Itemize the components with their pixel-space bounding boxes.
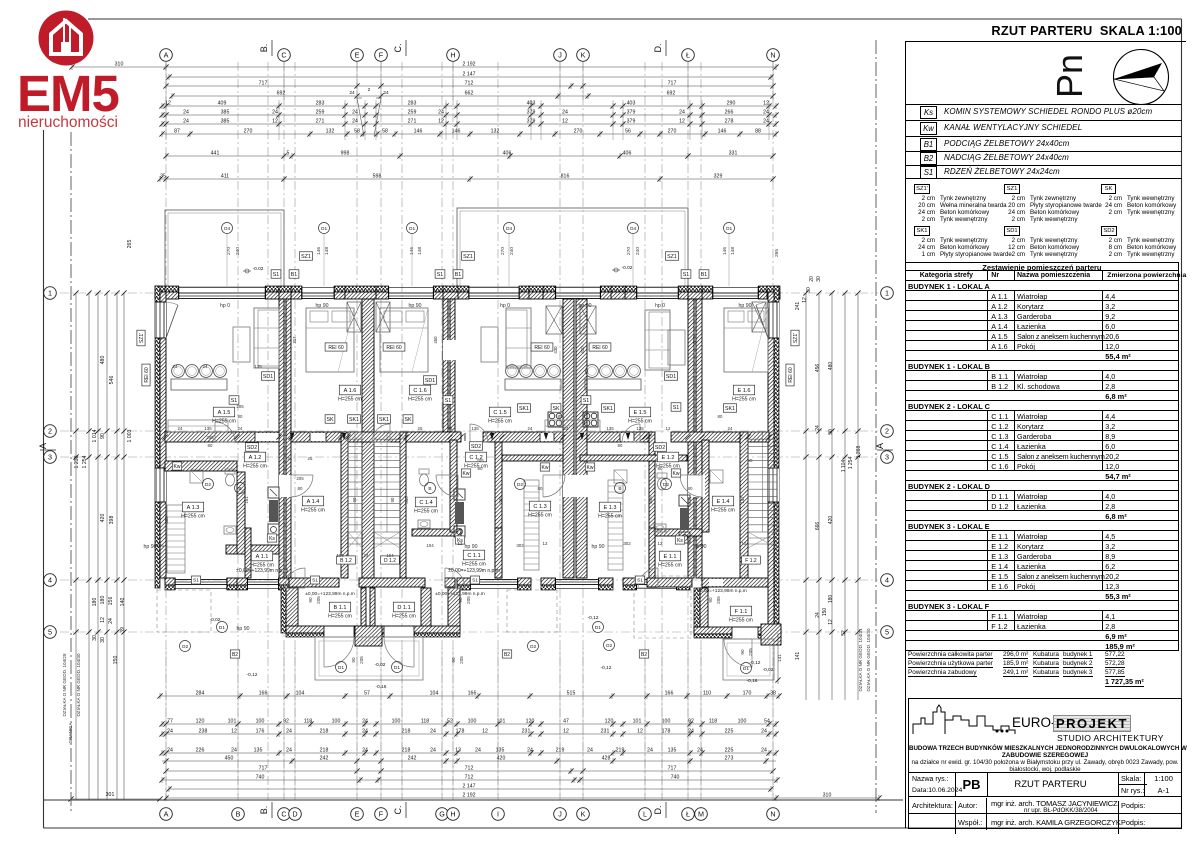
svg-text:77: 77: [167, 718, 173, 724]
svg-text:1: 1: [885, 289, 889, 298]
svg-text:hp 0: hp 0: [220, 303, 230, 309]
svg-text:E 1.2: E 1.2: [661, 455, 674, 461]
svg-text:SK: SK: [326, 417, 334, 423]
svg-text:hp 0: hp 0: [655, 303, 665, 309]
svg-text:L: L: [643, 810, 647, 819]
svg-text:430: 430: [580, 346, 585, 354]
svg-text:SZ1: SZ1: [301, 254, 311, 260]
svg-text:90: 90: [352, 497, 357, 502]
svg-text:331: 331: [729, 150, 738, 156]
svg-text:385: 385: [221, 118, 230, 124]
svg-text:816: 816: [561, 173, 570, 179]
svg-text:205: 205: [206, 435, 214, 440]
svg-text:4: 4: [48, 576, 52, 585]
svg-text:1 003: 1 003: [127, 429, 133, 442]
svg-text:146: 146: [722, 247, 728, 255]
svg-text:717: 717: [668, 765, 677, 771]
svg-text:30: 30: [816, 276, 822, 282]
svg-text:238: 238: [199, 728, 208, 734]
svg-text:SZ1': SZ1': [139, 333, 145, 343]
svg-text:K: K: [581, 810, 586, 819]
svg-text:12: 12: [482, 728, 488, 734]
svg-text:236: 236: [156, 543, 164, 548]
svg-text:270: 270: [500, 247, 506, 255]
svg-text:480: 480: [828, 362, 834, 371]
svg-text:2 147: 2 147: [463, 783, 476, 789]
svg-text:H=255 cm: H=255 cm: [328, 614, 352, 620]
svg-text:24: 24: [815, 425, 821, 431]
svg-text:717: 717: [259, 80, 268, 86]
svg-text:24: 24: [183, 118, 189, 124]
svg-text:E: E: [355, 51, 360, 60]
svg-text:H=255 cm: H=255 cm: [598, 514, 622, 520]
svg-text:24: 24: [448, 426, 453, 431]
svg-text:±0,00=+123,99m n.p.m: ±0,00=+123,99m n.p.m: [448, 568, 500, 574]
svg-text:598: 598: [373, 173, 382, 179]
svg-text:104: 104: [741, 541, 749, 546]
svg-text:C.: C.: [393, 806, 403, 815]
svg-text:450: 450: [225, 755, 234, 761]
svg-text:146: 146: [316, 247, 322, 255]
svg-text:F: F: [379, 810, 384, 819]
svg-text:141: 141: [740, 496, 745, 504]
svg-text:D.: D.: [653, 44, 663, 53]
svg-text:104: 104: [430, 690, 439, 696]
svg-text:270: 270: [626, 247, 632, 255]
svg-text:Ks: Ks: [269, 536, 275, 542]
svg-text:H=255 cm: H=255 cm: [414, 509, 438, 515]
svg-text:80: 80: [298, 486, 303, 491]
svg-text:12: 12: [637, 728, 643, 734]
svg-text:±0,00=+123,99m n.p.m: ±0,00=+123,99m n.p.m: [697, 588, 747, 594]
svg-text:90: 90: [740, 649, 745, 655]
svg-text:H=255 cm: H=255 cm: [338, 397, 362, 403]
svg-text:A 1.5: A 1.5: [218, 410, 231, 416]
svg-text:24: 24: [815, 612, 821, 618]
svg-text:24: 24: [178, 426, 183, 431]
svg-text:K: K: [581, 51, 586, 60]
svg-text:SZ1: SZ1: [463, 254, 473, 260]
svg-text:B: B: [238, 486, 241, 492]
svg-text:178: 178: [456, 728, 465, 734]
svg-text:135: 135: [496, 747, 505, 753]
svg-text:-0,02: -0,02: [210, 617, 221, 623]
svg-text:-0,12: -0,12: [601, 665, 612, 671]
svg-text:90: 90: [351, 657, 356, 663]
svg-text:278: 278: [725, 118, 734, 124]
svg-text:DZIAŁKA O NR GEOD. 104/28: DZIAŁKA O NR GEOD. 104/28: [62, 653, 67, 717]
svg-text:-0,16: -0,16: [376, 684, 387, 690]
svg-text:80: 80: [618, 443, 623, 448]
svg-text:O1: O1: [321, 226, 328, 232]
svg-text:178: 178: [662, 728, 671, 734]
svg-text:SK1: SK1: [349, 417, 359, 423]
svg-text:118: 118: [709, 718, 717, 724]
svg-text:231: 231: [522, 728, 531, 734]
svg-text:D1: D1: [394, 665, 400, 671]
svg-text:141: 141: [777, 654, 782, 662]
svg-text:712: 712: [465, 774, 474, 780]
svg-text:12: 12: [802, 297, 808, 303]
svg-text:hp 90: hp 90: [579, 303, 592, 309]
svg-text:420: 420: [100, 514, 106, 523]
svg-text:180: 180: [92, 598, 98, 607]
svg-text:24: 24: [167, 728, 173, 734]
svg-text:226: 226: [196, 747, 205, 753]
svg-text:Kw: Kw: [587, 465, 594, 471]
svg-text:F: F: [379, 51, 384, 60]
svg-text:403: 403: [627, 100, 636, 106]
svg-text:24: 24: [761, 747, 767, 753]
svg-text:148: 148: [730, 247, 736, 255]
svg-text:H=255 cm: H=255 cm: [462, 562, 486, 568]
svg-text:24: 24: [528, 426, 533, 431]
svg-text:12: 12: [272, 118, 278, 124]
svg-text:24: 24: [763, 109, 769, 115]
svg-text:1 238: 1 238: [74, 455, 80, 468]
svg-text:1: 1: [48, 289, 52, 298]
svg-text:H=255 cm: H=255 cm: [729, 618, 753, 624]
svg-text:25: 25: [418, 426, 423, 431]
svg-text:345: 345: [404, 496, 409, 504]
svg-text:270: 270: [574, 128, 583, 134]
svg-text:88: 88: [755, 128, 761, 134]
svg-text:24: 24: [761, 728, 767, 734]
svg-text:132: 132: [326, 128, 335, 134]
svg-text:305: 305: [164, 516, 169, 524]
svg-text:H=255 cm: H=255 cm: [392, 614, 416, 620]
svg-text:317: 317: [692, 336, 697, 344]
svg-text:-0,12: -0,12: [247, 672, 258, 678]
svg-text:90: 90: [451, 657, 456, 663]
svg-text:141: 141: [795, 652, 801, 661]
svg-text:218: 218: [402, 747, 411, 753]
svg-text:24: 24: [587, 747, 593, 753]
svg-text:25: 25: [308, 456, 313, 461]
svg-text:SD2: SD2: [471, 444, 481, 450]
svg-text:C: C: [281, 810, 286, 819]
svg-text:12: 12: [563, 728, 569, 734]
svg-text:662: 662: [465, 90, 474, 96]
svg-text:SK1: SK1: [603, 406, 613, 412]
svg-text:146: 146: [414, 128, 423, 134]
svg-text:2 192: 2 192: [463, 792, 476, 798]
svg-text:O4: O4: [224, 226, 231, 232]
svg-text:409: 409: [218, 100, 227, 106]
svg-text:DZIAŁKA O NR GEOD. 104/30: DZIAŁKA O NR GEOD. 104/30: [866, 628, 871, 692]
svg-text:C 1.3: C 1.3: [533, 504, 546, 510]
svg-text:104: 104: [426, 543, 434, 548]
svg-text:SD1: SD1: [425, 378, 435, 384]
svg-text:135: 135: [636, 426, 644, 431]
svg-text:hp 90: hp 90: [409, 303, 422, 309]
svg-text:SD2: SD2: [247, 445, 257, 451]
svg-text:24: 24: [647, 747, 653, 753]
svg-text:2 192: 2 192: [463, 61, 476, 67]
svg-text:146: 146: [452, 128, 461, 134]
svg-text:S1: S1: [231, 398, 238, 404]
svg-text:E 1.6: E 1.6: [737, 388, 750, 394]
svg-text:SK: SK: [404, 417, 412, 423]
svg-text:D2: D2: [663, 482, 669, 488]
svg-text:REI 60: REI 60: [144, 367, 150, 383]
svg-text:A 1.1: A 1.1: [256, 554, 269, 560]
svg-text:430: 430: [553, 346, 558, 354]
svg-text:240: 240: [509, 247, 515, 255]
svg-text:hp 90: hp 90: [144, 544, 157, 550]
svg-text:C.: C.: [393, 44, 403, 53]
svg-text:-0,02: -0,02: [763, 667, 774, 673]
svg-text:REI 60: REI 60: [386, 345, 402, 351]
svg-text:231: 231: [601, 728, 610, 734]
svg-text:H=255 cm: H=255 cm: [408, 397, 432, 403]
svg-text:A 1.6: A 1.6: [344, 388, 357, 394]
svg-text:302: 302: [623, 541, 631, 546]
svg-text:104: 104: [336, 553, 344, 558]
svg-text:717: 717: [259, 765, 268, 771]
svg-text:S1: S1: [637, 578, 643, 584]
svg-text:24: 24: [286, 728, 292, 734]
svg-text:39: 39: [120, 627, 126, 633]
svg-text:24: 24: [286, 747, 292, 753]
svg-text:B2: B2: [641, 652, 647, 658]
svg-text:E 1.4: E 1.4: [716, 499, 729, 505]
svg-text:302: 302: [516, 543, 524, 548]
svg-text:101: 101: [633, 718, 642, 724]
svg-text:-0.02: -0.02: [622, 265, 633, 271]
svg-text:H=255 cm: H=255 cm: [243, 464, 267, 470]
svg-text:B2: B2: [504, 652, 510, 658]
svg-text:205: 205: [359, 656, 364, 664]
svg-text:205: 205: [316, 596, 321, 604]
svg-text:80: 80: [658, 466, 663, 471]
svg-text:30: 30: [806, 287, 812, 293]
svg-text:265: 265: [774, 249, 780, 257]
svg-text:J: J: [558, 51, 562, 60]
svg-text:hp 90: hp 90: [316, 303, 329, 309]
svg-text:24: 24: [167, 747, 173, 753]
svg-text:90: 90: [748, 458, 753, 463]
svg-text:283: 283: [408, 100, 417, 106]
svg-text:379: 379: [627, 118, 636, 124]
svg-text:D1: D1: [219, 625, 225, 631]
svg-text:B1: B1: [701, 272, 708, 278]
svg-text:406: 406: [623, 150, 632, 156]
svg-text:H=255 cm: H=255 cm: [732, 397, 756, 403]
svg-text:232: 232: [696, 543, 704, 548]
svg-text:24: 24: [728, 426, 733, 431]
svg-text:3: 3: [48, 453, 52, 462]
svg-text:Ks: Ks: [677, 538, 683, 544]
svg-text:30: 30: [92, 635, 98, 641]
svg-text:B: B: [618, 486, 621, 492]
svg-text:135: 135: [668, 747, 677, 753]
svg-text:24: 24: [362, 728, 368, 734]
svg-text:118: 118: [304, 718, 312, 724]
svg-text:S1: S1: [472, 578, 478, 584]
svg-text:2: 2: [48, 427, 52, 436]
svg-text:O2: O2: [606, 643, 613, 649]
svg-text:273: 273: [725, 755, 734, 761]
svg-text:B2: B2: [232, 652, 238, 658]
svg-text:A: A: [38, 443, 48, 449]
svg-text:A: A: [164, 51, 169, 60]
svg-text:740: 740: [256, 774, 265, 780]
svg-text:385: 385: [221, 109, 230, 115]
svg-text:205: 205: [236, 404, 244, 409]
svg-text:nieruchomości: nieruchomości: [18, 114, 118, 131]
svg-text:F 1.1: F 1.1: [735, 609, 748, 615]
svg-text:24: 24: [364, 553, 369, 558]
svg-text:SZ1: SZ1: [667, 254, 677, 260]
svg-text:270: 270: [244, 128, 253, 134]
svg-text:90: 90: [308, 597, 313, 603]
svg-text:24: 24: [231, 747, 237, 753]
svg-text:271: 271: [316, 118, 325, 124]
svg-text:S1: S1: [683, 272, 690, 278]
svg-text:1 268: 1 268: [856, 446, 862, 459]
svg-text:176: 176: [256, 728, 265, 734]
svg-text:2 147: 2 147: [463, 71, 476, 77]
svg-text:N: N: [770, 810, 775, 819]
svg-text:12: 12: [231, 728, 237, 734]
svg-text:80: 80: [208, 443, 213, 448]
svg-text:I: I: [497, 810, 499, 819]
svg-text:4: 4: [885, 576, 889, 585]
svg-text:225: 225: [725, 747, 734, 753]
svg-text:150: 150: [822, 608, 828, 617]
svg-text:205: 205: [466, 596, 471, 604]
svg-text:35: 35: [160, 173, 166, 179]
svg-text:SK: SK: [552, 406, 560, 412]
svg-text:132: 132: [491, 128, 500, 134]
svg-text:998: 998: [341, 150, 350, 156]
svg-text:2: 2: [368, 87, 371, 93]
svg-text:345: 345: [498, 496, 503, 504]
svg-text:90: 90: [458, 597, 463, 603]
svg-text:DZIAŁKA O NR GEOD. 104/30: DZIAŁKA O NR GEOD. 104/30: [76, 653, 81, 717]
svg-text:170: 170: [743, 690, 752, 696]
svg-text:411: 411: [221, 173, 229, 179]
svg-text:24: 24: [352, 109, 358, 115]
svg-text:266: 266: [725, 109, 734, 115]
svg-text:D 1.2: D 1.2: [384, 558, 396, 564]
svg-text:58: 58: [354, 128, 360, 134]
svg-text:205: 205: [459, 656, 464, 664]
svg-text:24: 24: [697, 747, 703, 753]
svg-text:12: 12: [543, 541, 548, 546]
svg-text:-0.02: -0.02: [253, 266, 264, 272]
svg-text:717: 717: [668, 80, 677, 86]
svg-text:B1: B1: [291, 272, 298, 278]
svg-text:E 1.5: E 1.5: [633, 410, 646, 416]
svg-text:100: 100: [256, 718, 265, 724]
svg-text:M: M: [698, 810, 704, 819]
svg-text:104: 104: [296, 690, 305, 696]
svg-text:166: 166: [259, 690, 268, 696]
svg-text:90: 90: [390, 497, 395, 502]
svg-text:N: N: [770, 51, 775, 60]
svg-text:A 1.2: A 1.2: [249, 455, 262, 461]
svg-text:420: 420: [828, 516, 834, 525]
svg-text:O2: O2: [530, 644, 537, 650]
svg-text:24: 24: [679, 109, 685, 115]
svg-text:90: 90: [100, 433, 106, 439]
svg-text:A 1.4: A 1.4: [307, 499, 320, 505]
svg-text:S1: S1: [273, 272, 280, 278]
svg-text:242: 242: [408, 755, 417, 761]
svg-text:B.: B.: [259, 44, 269, 53]
svg-text:1 254: 1 254: [82, 455, 88, 468]
svg-text:265: 265: [127, 240, 133, 249]
svg-text:GRANICA: GRANICA: [68, 722, 73, 744]
svg-text:C: C: [281, 51, 286, 60]
svg-text:S1: S1: [673, 405, 680, 411]
svg-text:24: 24: [475, 747, 481, 753]
svg-text:242: 242: [320, 755, 329, 761]
svg-text:H=255 cm: H=255 cm: [212, 419, 236, 425]
svg-text:D 1.1: D 1.1: [397, 605, 410, 611]
svg-text:O2: O2: [182, 644, 189, 650]
svg-text:H: H: [450, 51, 455, 60]
svg-text:H=255 cm: H=255 cm: [301, 508, 325, 514]
svg-text:hp 90: hp 90: [465, 544, 478, 550]
svg-text:218: 218: [320, 747, 329, 753]
svg-text:52: 52: [447, 718, 453, 724]
svg-text:D2: D2: [517, 482, 523, 488]
svg-text:456: 456: [815, 364, 821, 373]
svg-text:12: 12: [438, 118, 444, 124]
svg-text:310: 310: [823, 792, 832, 798]
svg-text:329: 329: [714, 173, 723, 179]
svg-text:52: 52: [841, 630, 847, 636]
svg-text:100: 100: [392, 718, 401, 724]
svg-text:E: E: [355, 810, 360, 819]
svg-text:hp 90: hp 90: [237, 626, 250, 632]
svg-text:E 1.1: E 1.1: [663, 554, 676, 560]
svg-text:B.: B.: [259, 806, 269, 815]
svg-text:118: 118: [421, 718, 429, 724]
svg-text:S1: S1: [583, 398, 590, 404]
svg-text:100: 100: [332, 718, 341, 724]
svg-text:SK1: SK1: [725, 406, 735, 412]
svg-text:546: 546: [109, 376, 115, 385]
svg-text:24: 24: [362, 747, 368, 753]
svg-text:205: 205: [716, 596, 721, 604]
svg-text:120: 120: [526, 718, 535, 724]
svg-text:301: 301: [106, 792, 115, 798]
svg-text:205: 205: [296, 476, 304, 481]
svg-text:REI 60: REI 60: [788, 367, 794, 383]
svg-text:3: 3: [885, 453, 889, 462]
svg-text:692: 692: [667, 90, 676, 96]
svg-text:-0,02: -0,02: [375, 662, 386, 668]
svg-text:±0,00=+123,99m n.p.m: ±0,00=+123,99m n.p.m: [236, 568, 288, 574]
svg-text:24: 24: [349, 90, 355, 96]
svg-text:SD1: SD1: [666, 374, 676, 380]
svg-text:24: 24: [527, 747, 533, 753]
svg-text:C 1.6: C 1.6: [413, 388, 426, 394]
svg-text:Kw: Kw: [673, 471, 680, 477]
svg-text:H=255 cm: H=255 cm: [528, 513, 552, 519]
svg-text:24: 24: [688, 728, 694, 734]
svg-text:S1: S1: [193, 578, 199, 584]
svg-text:480: 480: [100, 356, 106, 365]
svg-text:SD1: SD1: [263, 374, 273, 380]
svg-text:148: 148: [417, 247, 423, 255]
svg-text:24: 24: [203, 364, 208, 369]
svg-text:80: 80: [238, 414, 243, 419]
